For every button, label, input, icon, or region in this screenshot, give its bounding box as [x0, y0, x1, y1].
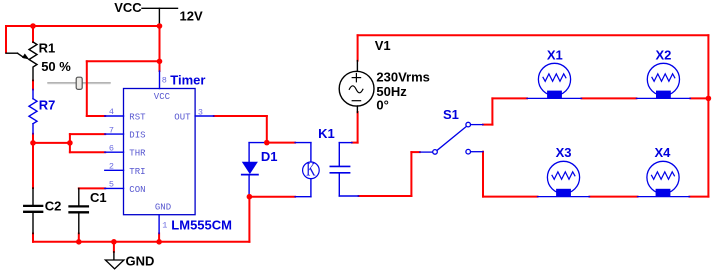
- node: OUT to D1/coil: [264, 140, 270, 146]
- svg-text:50 %: 50 %: [41, 59, 71, 74]
- node: D1 cathode to ground: [247, 194, 253, 200]
- timer IC U1 LM555CM body: [124, 89, 196, 215]
- node: pot top on VCC rail: [30, 23, 36, 29]
- capacitor C2: [24, 188, 42, 234]
- lamp X4: [638, 161, 690, 196]
- wire: C1 bottom to rail: [78, 234, 80, 242]
- svg-text:K1: K1: [318, 126, 335, 141]
- wire: node A to DIS/THR junction: [33, 142, 70, 144]
- wire: relay circle bottom lead: [310, 179, 312, 197]
- wire: R7 to node A: [32, 134, 34, 188]
- R1 slider track: [48, 82, 110, 84]
- svg-text:Timer: Timer: [170, 73, 205, 88]
- svg-text:8: 8: [162, 76, 167, 86]
- svg-text:TRI: TRI: [129, 167, 145, 177]
- svg-text:GND: GND: [126, 254, 155, 269]
- svg-text:VCC: VCC: [154, 92, 171, 102]
- node: row1 to right rail: [706, 96, 712, 102]
- capacitor C1: [70, 188, 88, 233]
- wire: loop top red part: [267, 142, 295, 144]
- wire: left drop to wiper: [5, 26, 7, 52]
- svg-text:THR: THR: [129, 149, 146, 159]
- svg-text:V1: V1: [375, 38, 391, 53]
- wire: to DIS pin 7: [70, 133, 105, 135]
- relay K1 core plates: [330, 165, 349, 167]
- wire: lamp row 1 right segment: [690, 97, 708, 99]
- wire: RST branch horizontal: [87, 60, 160, 62]
- wire: C2 bottom to rail: [32, 234, 34, 242]
- relay K1 coil: [295, 143, 359, 197]
- svg-text:1: 1: [162, 221, 167, 231]
- svg-text:3: 3: [198, 107, 203, 117]
- svg-text:230Vrms: 230Vrms: [376, 69, 430, 84]
- switch blade: [437, 126, 466, 150]
- wire: lamp row 2 right segment: [690, 196, 709, 198]
- svg-text:K: K: [306, 160, 316, 181]
- wire: ground rail: [33, 241, 249, 243]
- wire: coil top to V1: [352, 142, 358, 144]
- svg-text:6: 6: [109, 143, 114, 153]
- node: DIS/THR tie: [67, 140, 73, 146]
- wire: to THR pin 6: [70, 151, 105, 153]
- svg-text:X3: X3: [556, 145, 572, 160]
- wire: lamp row 2 left segment: [483, 196, 538, 198]
- wire: loop bottom red part: [249, 196, 295, 198]
- wire: RST branch vertical: [86, 61, 88, 116]
- wire: pin 1 to rail: [158, 234, 160, 242]
- svg-text:RST: RST: [129, 113, 146, 123]
- svg-text:12V: 12V: [180, 9, 203, 24]
- lamp X2: [636, 63, 690, 98]
- wire: VCC drop to pin 8: [159, 26, 161, 71]
- wire: to switch pole: [411, 151, 419, 153]
- wire: riser to lamp row 1: [491, 98, 493, 124]
- svg-text:7: 7: [109, 125, 114, 135]
- resistor R7: [29, 89, 37, 133]
- svg-text:2: 2: [109, 161, 114, 171]
- wire: OUT drop to relay node: [266, 116, 268, 143]
- node A: R7/C2/DIS/THR: [30, 140, 36, 146]
- ground symbol: [105, 252, 124, 269]
- wire: pot to R7: [32, 81, 34, 90]
- wire: top rail: [358, 34, 709, 36]
- node: RST/VCC tie: [157, 59, 163, 65]
- node: pin1 on rail: [156, 239, 162, 245]
- wire: pole lead: [420, 151, 433, 153]
- wire: relay circle top lead: [295, 142, 311, 144]
- wire: lamp row 2 middle segment: [590, 196, 638, 198]
- wire: coil bottom lead: [338, 174, 340, 196]
- wire: coil bottom run to switch: [359, 195, 412, 197]
- wire: CON pin 5 to C1: [79, 187, 105, 189]
- svg-text:OUT: OUT: [174, 113, 191, 123]
- timer pin stubs: [105, 71, 214, 234]
- node: VCC rail corner junction: [157, 23, 163, 29]
- switch S1: [420, 122, 483, 154]
- wire: lamp row 1 middle segment: [582, 97, 637, 99]
- svg-text:X1: X1: [547, 47, 563, 62]
- wire: switch bottom contact drop: [482, 152, 484, 197]
- svg-text:C1: C1: [90, 190, 107, 205]
- svg-text:X2: X2: [656, 47, 672, 62]
- wire: coil top lead: [338, 143, 340, 166]
- wire: right rail: [707, 35, 709, 196]
- svg-text:C2: C2: [45, 198, 62, 213]
- svg-text:CON: CON: [129, 185, 145, 195]
- svg-text:D1: D1: [261, 149, 278, 164]
- svg-text:VCC: VCC: [114, 0, 142, 15]
- wire: bottom contact lead: [471, 151, 483, 153]
- wire: top contact lead: [471, 124, 483, 126]
- svg-text:X4: X4: [655, 145, 672, 160]
- wire: rail to GND stub: [113, 242, 115, 252]
- diode D1: [242, 143, 267, 197]
- wire: V1 bottom lead drop: [357, 112, 359, 143]
- svg-text:0°: 0°: [376, 98, 388, 113]
- svg-text:S1: S1: [443, 107, 459, 122]
- potentiometer R1: [6, 42, 37, 81]
- node: C1 on ground rail: [76, 239, 82, 245]
- node: GND symbol on rail: [111, 239, 117, 245]
- wire: RST to pin 4: [87, 115, 105, 117]
- wire: switch top contact to lamp row 1: [483, 124, 492, 126]
- svg-text:R1: R1: [39, 40, 56, 55]
- lamp X1: [527, 63, 582, 98]
- svg-text:4: 4: [109, 107, 114, 117]
- wire: loop top blue part: [249, 142, 267, 144]
- lamp X3: [538, 161, 590, 196]
- wire: DIS/THR vertical tie: [69, 134, 71, 152]
- potentiometer R1 wiper arrowhead: [22, 54, 29, 60]
- R1 slider handle: [76, 77, 82, 89]
- VCC power symbol: [142, 8, 178, 25]
- wire: pot top lead: [32, 26, 34, 42]
- svg-text:LM555CM: LM555CM: [171, 218, 232, 233]
- svg-text:R7: R7: [39, 97, 56, 112]
- wire: lamp row 1 left segment: [492, 97, 527, 99]
- svg-text:GND: GND: [155, 203, 171, 213]
- svg-text:DIS: DIS: [129, 131, 145, 141]
- wire: VCC top rail: [6, 25, 160, 27]
- wire: V1 top lead to top rail: [357, 35, 359, 60]
- AC source V1: [339, 61, 374, 113]
- svg-text:5: 5: [109, 179, 114, 189]
- wire: OUT pin 3 horizontal: [214, 115, 267, 117]
- wire: D1 node down to ground rail: [248, 197, 250, 242]
- wire: riser to switch pole: [410, 152, 412, 196]
